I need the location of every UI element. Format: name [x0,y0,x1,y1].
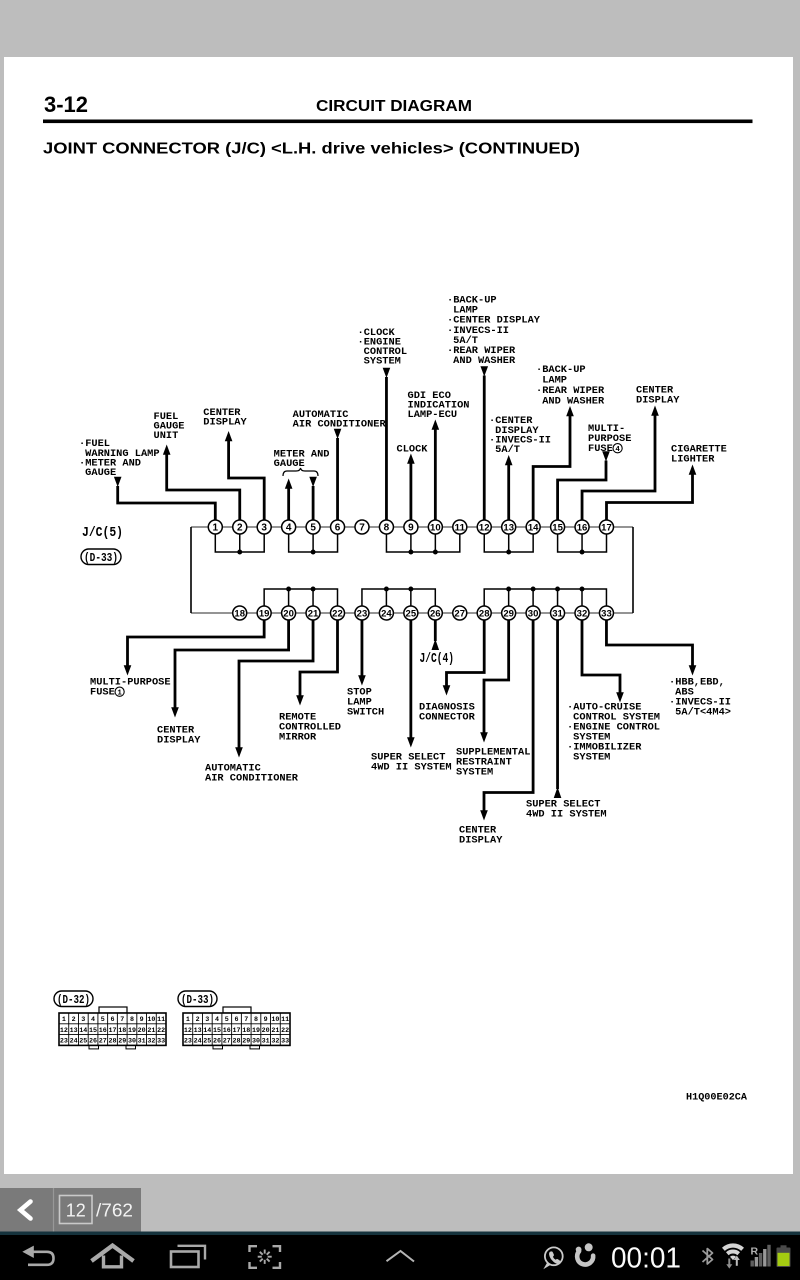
current page box [60,1196,93,1224]
svg-text:FUSE: FUSE [90,687,115,699]
svg-text:15: 15 [89,1027,97,1035]
svg-text:30: 30 [528,608,539,618]
wire: bridge pins 4-6 [289,534,338,553]
svg-text:6: 6 [234,1016,238,1024]
svg-text:15: 15 [213,1027,221,1035]
connector pin 13 [502,520,516,534]
svg-text:27: 27 [99,1038,107,1046]
wire from pin 28 [447,620,485,687]
svg-text:26: 26 [213,1038,221,1046]
nav icon: recent apps [178,1246,206,1260]
status icon: battery [777,1245,791,1267]
connector pin 33 [599,606,613,620]
svg-text:14: 14 [203,1027,211,1035]
svg-text:5A/T<4M4>: 5A/T<4M4> [675,707,731,719]
connector pin 9 [404,520,418,534]
wire: right bus vertical [632,527,634,613]
svg-text:29: 29 [503,608,514,618]
svg-text:9: 9 [264,1016,268,1024]
svg-text:(D-32): (D-32) [57,994,90,1007]
wire: bridge pins 8-11 [386,534,459,553]
svg-text:14: 14 [79,1027,87,1035]
svg-text:24: 24 [381,608,392,618]
connector pin 21 [306,606,320,620]
svg-text:14: 14 [528,522,539,532]
svg-text:10: 10 [430,522,441,532]
wire from pin 25 [409,620,412,739]
brace over pins 4-5 [283,468,318,476]
svg-text:33: 33 [157,1038,165,1046]
wire from pin 29 [484,620,509,734]
svg-text:16: 16 [223,1027,231,1035]
svg-text:SYSTEM: SYSTEM [456,767,493,779]
wire: left bus vertical [190,527,192,613]
svg-text:27: 27 [223,1038,231,1046]
svg-text:7: 7 [359,522,365,533]
svg-text:30: 30 [128,1038,136,1046]
svg-text:26: 26 [430,608,441,618]
svg-text:11: 11 [281,1016,289,1024]
svg-text:LIGHTER: LIGHTER [671,454,715,466]
svg-text:31: 31 [138,1038,146,1046]
svg-text:GAUGE: GAUGE [85,467,116,479]
svg-text:AND WASHER: AND WASHER [542,396,605,408]
status icon: bluetooth [703,1249,713,1264]
svg-text:29: 29 [118,1038,126,1046]
svg-text:1: 1 [186,1016,190,1024]
wire from pin 21 [239,620,313,749]
connector designator D-33 [178,991,217,1007]
svg-text:AIR CONDITIONER: AIR CONDITIONER [293,419,387,431]
svg-text:17: 17 [108,1027,116,1035]
svg-text:17: 17 [601,522,612,532]
svg-text:12: 12 [184,1027,192,1035]
svg-text:7: 7 [244,1016,248,1024]
connector table D-32 [59,1007,166,1049]
svg-text:SYSTEM: SYSTEM [364,356,401,368]
connector pin 22 [331,606,345,620]
status icon: wifi [722,1243,744,1260]
connector pin 29 [502,606,516,620]
wire to pin 8 [383,368,391,378]
nav icon: home [92,1246,134,1262]
svg-text:UNIT: UNIT [154,430,179,442]
connector pin 11 [453,520,467,534]
svg-text:J/C(4): J/C(4) [420,652,455,667]
android nav bar [0,1235,800,1280]
svg-text:33: 33 [281,1038,289,1046]
connector pin 8 [379,520,393,534]
wire to pin 15 [602,451,610,461]
wire from pin 32 [582,620,620,694]
svg-text:2: 2 [196,1016,200,1024]
svg-text:32: 32 [147,1038,155,1046]
svg-text:18: 18 [234,608,245,618]
svg-text:13: 13 [70,1027,78,1035]
svg-text:9: 9 [408,522,414,533]
svg-text:19: 19 [252,1027,260,1035]
svg-text:(D-33): (D-33) [84,552,118,565]
nav icon: back [28,1252,54,1265]
page nav bar background [0,1188,141,1232]
back chevron button [21,1202,31,1219]
svg-text:28: 28 [232,1038,240,1046]
svg-text:22: 22 [332,608,343,618]
svg-text:22: 22 [281,1027,289,1035]
svg-text:21: 21 [308,608,319,618]
svg-text:CIRCUIT DIAGRAM: CIRCUIT DIAGRAM [316,98,472,115]
svg-text:8: 8 [254,1016,258,1024]
connector pin 6 [331,520,345,534]
svg-text:25: 25 [406,608,417,618]
svg-text:16: 16 [99,1027,107,1035]
svg-text:19: 19 [128,1027,136,1035]
wire: top row bus line [191,526,633,528]
connector pin 1 [208,520,222,534]
svg-text:LAMP-ECU: LAMP-ECU [408,409,458,421]
svg-text:17: 17 [232,1027,240,1035]
svg-text:11: 11 [157,1016,165,1024]
connector pin 26 [428,606,442,620]
svg-text:29: 29 [242,1038,250,1046]
connector pin 18 [233,606,247,620]
svg-text:MIRROR: MIRROR [279,732,317,744]
wire from pin 30 [484,620,533,812]
wire from pin 31 [556,620,559,789]
wire to pin 17 [689,465,697,475]
svg-text:1: 1 [62,1016,66,1024]
svg-text:3: 3 [261,522,267,533]
connector pin 27 [453,606,467,620]
connector pin 28 [477,606,491,620]
svg-text:5: 5 [225,1016,229,1024]
svg-text:6: 6 [335,522,341,533]
svg-text:24: 24 [194,1038,202,1046]
connector pin 5 [306,520,320,534]
header rule [43,120,753,124]
svg-text:21: 21 [271,1027,279,1035]
connector pin 30 [526,606,540,620]
svg-text:32: 32 [577,608,588,618]
svg-text:3: 3 [81,1016,85,1024]
svg-text:2: 2 [72,1016,76,1024]
wire to pin 14 [566,406,574,416]
wire to pin 4 [285,479,293,489]
svg-text:DISPLAY: DISPLAY [203,417,247,429]
svg-text:23: 23 [357,608,368,618]
svg-text:4WD II SYSTEM: 4WD II SYSTEM [526,809,607,821]
svg-text:20: 20 [262,1027,270,1035]
svg-text:AIR CONDITIONER: AIR CONDITIONER [205,773,299,785]
svg-text:28: 28 [479,608,490,618]
status icon: whatsapp [543,1247,562,1269]
svg-text:4: 4 [286,522,292,533]
nav icon: quick launch caret [387,1251,415,1262]
svg-text:23: 23 [184,1038,192,1046]
connector pin 10 [428,520,442,534]
wire to pin 16 [651,406,659,416]
connector designator D-33 (left) [81,549,121,565]
svg-text:J/C(5): J/C(5) [82,526,123,541]
svg-text:9: 9 [140,1016,144,1024]
svg-text:7: 7 [120,1016,124,1024]
svg-text:20: 20 [283,608,294,618]
svg-text:2: 2 [237,522,243,533]
wire: bridge pins 23-26 [362,589,435,607]
connector pin 17 [600,520,614,534]
wire: bridge pins 15-17 [558,534,607,553]
connector pin 2 [233,520,247,534]
wire from pin 33 [606,620,692,667]
svg-text:4WD II SYSTEM: 4WD II SYSTEM [371,762,452,774]
svg-text:23: 23 [60,1038,68,1046]
svg-text:26: 26 [89,1038,97,1046]
svg-text:31: 31 [552,608,563,618]
svg-text:DISPLAY: DISPLAY [636,395,680,407]
svg-text:18: 18 [118,1027,126,1035]
wire to pin 13 [505,455,513,465]
connector table D-33 [183,1007,290,1049]
svg-text:30: 30 [252,1038,260,1046]
svg-text:4: 4 [215,1016,219,1024]
wire to pin 9 [407,454,415,464]
wire from pin 26 to J/C(4) [434,620,437,641]
svg-text:32: 32 [271,1038,279,1046]
svg-text:33: 33 [601,608,612,618]
svg-text:12: 12 [479,522,490,532]
svg-text:H1Q00E02CA: H1Q00E02CA [686,1093,747,1104]
wire: bridge pins 28-33 [484,589,606,607]
svg-text:JOINT CONNECTOR (J/C) <L.H. dr: JOINT CONNECTOR (J/C) <L.H. drive vehicl… [43,141,580,158]
svg-text:25: 25 [79,1038,87,1046]
svg-text:8: 8 [384,522,390,533]
wire to pin 5 [309,477,317,487]
wire from pin 22 [300,620,338,697]
svg-text:20: 20 [138,1027,146,1035]
connector pin 4 [282,520,296,534]
wire to pin 2 [163,445,171,455]
svg-text:4: 4 [91,1016,95,1024]
svg-text:10: 10 [147,1016,155,1024]
svg-text:15: 15 [552,522,563,532]
svg-text:(D-33): (D-33) [181,994,214,1007]
wire to pin 6 [334,429,342,439]
wire to pin 3 [225,431,233,441]
status bar divider line [0,1232,800,1236]
svg-text:24: 24 [70,1038,78,1046]
svg-text:8: 8 [130,1016,134,1024]
nav icon: screen capture [250,1246,281,1268]
connector pin 32 [575,606,589,620]
connector pin 23 [355,606,369,620]
connector pin 31 [551,606,565,620]
svg-text:16: 16 [577,522,588,532]
wire: bridge pins 12-14 [484,534,533,553]
connector pin 7 [355,520,369,534]
svg-text:SYSTEM: SYSTEM [573,752,610,764]
svg-text:25: 25 [203,1038,211,1046]
svg-text:28: 28 [108,1038,116,1046]
svg-text:11: 11 [455,522,466,532]
connector pin 12 [477,520,491,534]
wire to pin 10 [432,420,440,430]
svg-text:3: 3 [205,1016,209,1024]
wire: bridge pins 1-3 [215,534,264,553]
svg-text:19: 19 [259,608,270,618]
svg-text:5: 5 [101,1016,105,1024]
connector pin 20 [282,606,296,620]
wire: bridge pins 19-22 [264,589,337,607]
svg-text:31: 31 [262,1038,270,1046]
connector pin 24 [379,606,393,620]
svg-text:5A/T: 5A/T [495,444,520,456]
connector designator D-32 [54,991,93,1007]
svg-text:AND WASHER: AND WASHER [453,355,516,367]
wire from pin 23 [361,620,364,677]
svg-text:13: 13 [503,522,514,532]
svg-text:DISPLAY: DISPLAY [157,735,201,747]
svg-text:12: 12 [60,1027,68,1035]
svg-text:SWITCH: SWITCH [347,707,384,719]
svg-text:DISPLAY: DISPLAY [459,835,503,847]
circled digit 1 [115,687,124,696]
connector pin 16 [575,520,589,534]
svg-text:27: 27 [454,608,465,618]
svg-text:10: 10 [271,1016,279,1024]
status icon: alarm/app circle [572,1240,597,1267]
svg-text:CLOCK: CLOCK [397,444,429,456]
svg-text:00:01: 00:01 [611,1242,681,1274]
svg-text:CONNECTOR: CONNECTOR [419,712,476,724]
wire: bottom row bus line [191,612,633,614]
circled digit 4 [613,444,622,453]
svg-text:R: R [751,1246,759,1258]
wire from pin 19 [128,620,265,667]
svg-text:18: 18 [242,1027,250,1035]
connector pin 3 [257,520,271,534]
connector pin 25 [404,606,418,620]
svg-text:3-12: 3-12 [44,92,88,117]
svg-text:4: 4 [615,446,620,454]
wire to pin 1 [114,477,122,487]
svg-text:5: 5 [310,522,316,533]
svg-text:1: 1 [213,522,219,533]
wire to pin 12 [480,366,488,376]
svg-text:6: 6 [110,1016,114,1024]
svg-text:13: 13 [194,1027,202,1035]
connector pin 15 [551,520,565,534]
wire from pin 20 [175,620,289,709]
connector pin 14 [526,520,540,534]
svg-text:22: 22 [157,1027,165,1035]
svg-text:21: 21 [147,1027,155,1035]
svg-text:1: 1 [117,689,122,697]
connector pin 19 [257,606,271,620]
svg-text:12: 12 [66,1201,86,1221]
svg-text:/762: /762 [96,1201,133,1221]
